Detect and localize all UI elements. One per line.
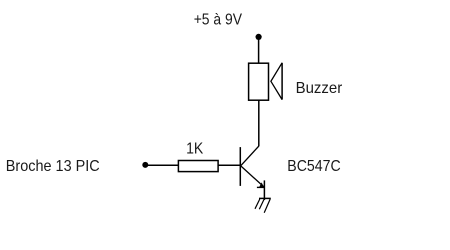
- transistor Q1 base bar: [239, 147, 241, 186]
- ground hatch stroke 3: [264, 199, 270, 213]
- resistor R1 body: [178, 161, 218, 172]
- transistor Q1 collector lead: [241, 146, 259, 166]
- svg-text:Broche 13 PIC: Broche 13 PIC: [6, 158, 100, 175]
- ground hatch stroke 1: [255, 199, 260, 209]
- wire buzzer to collector: [258, 100, 260, 146]
- wire resistor to base: [218, 164, 240, 166]
- transistor Q1 emitter lead: [241, 166, 264, 187]
- wire input to resistor: [145, 164, 178, 166]
- node input dot: [142, 162, 148, 168]
- svg-text:BC547C: BC547C: [287, 158, 340, 175]
- ground bar: [259, 197, 271, 199]
- buzzer BZ1 body: [249, 63, 269, 100]
- node supply dot: [256, 34, 262, 40]
- ground hatch stroke 2: [259, 199, 264, 209]
- wire supply to buzzer: [258, 37, 260, 63]
- wire emitter to ground: [263, 180, 265, 200]
- transistor Q1 emitter arrowhead: [257, 186, 264, 188]
- buzzer BZ1 horn triangle: [271, 63, 282, 100]
- svg-text:1K: 1K: [186, 140, 203, 157]
- svg-text:+5 à 9V: +5 à 9V: [194, 12, 243, 29]
- svg-text:Buzzer: Buzzer: [296, 80, 343, 97]
